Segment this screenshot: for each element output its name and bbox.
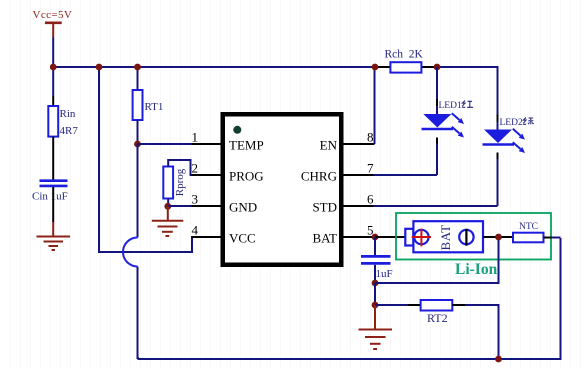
wire pin8 EN stub	[344, 143, 375, 145]
ground under Cin	[37, 237, 71, 251]
wire RT1 column from bus	[137, 67, 139, 90]
svg-text:1: 1	[192, 130, 199, 145]
wire Vcc bus	[52, 66, 375, 68]
node TEMP junction	[134, 141, 141, 148]
wire RT2 row left	[375, 304, 421, 306]
svg-text:GND: GND	[229, 200, 257, 215]
svg-text:7: 7	[367, 161, 374, 176]
wire TEMP column below hop to bottom rail	[138, 267, 140, 359]
svg-text:TEMP: TEMP	[229, 138, 264, 153]
ground at RT2 node	[359, 330, 393, 350]
node GND junction	[164, 203, 171, 210]
node cap bottom junction	[372, 280, 379, 287]
node bus at Rch right	[434, 64, 441, 71]
LED1 red	[422, 67, 474, 175]
svg-text:PROG: PROG	[229, 169, 264, 184]
wire RT2 node to ground	[374, 305, 376, 329]
svg-text:RT2: RT2	[427, 311, 448, 325]
wire GND node to ground	[167, 206, 169, 220]
wire pin7 CHRG stub	[344, 174, 374, 176]
svg-text:6: 6	[367, 192, 374, 207]
svg-text:Rch 2K: Rch 2K	[385, 49, 424, 61]
wire bus right segment to LED2 column	[437, 67, 498, 130]
wire pin2 PROG jog	[168, 160, 221, 175]
LED2 green	[483, 115, 534, 207]
node battery plus NTC junction	[495, 234, 502, 241]
resistor RT1	[133, 90, 164, 120]
IC U1 body	[223, 114, 342, 265]
IC pin1 indicator dot	[233, 126, 241, 134]
node bus at Vcc	[50, 64, 57, 71]
wire Rch right lead	[421, 66, 437, 68]
svg-text:Rprog: Rprog	[174, 168, 186, 196]
wire Vcc stem to bus	[52, 38, 54, 68]
node bus at Rch left	[372, 64, 379, 71]
wire STD to LED2	[374, 205, 498, 207]
svg-text:RT1: RT1	[145, 101, 164, 113]
node bus at VCC-pin column	[96, 64, 103, 71]
wire hop over VCC wire	[123, 238, 138, 267]
wire VCC-pin column from bus at node 2	[99, 67, 194, 252]
resistor NTC	[513, 222, 544, 242]
resistor Rprog	[163, 167, 186, 199]
wire TEMP column down to hop	[137, 144, 139, 238]
svg-text:8: 8	[367, 130, 374, 145]
wire pin1 TEMP	[138, 143, 222, 145]
svg-text:BAT: BAT	[312, 231, 337, 246]
wire BAT node to battery	[375, 236, 405, 238]
ground at pin3	[152, 221, 184, 236]
svg-text:4: 4	[192, 223, 199, 238]
wire battery to NTC node	[483, 236, 513, 238]
wire Rch left lead	[375, 66, 390, 68]
svg-text:NTC: NTC	[519, 222, 538, 232]
wire Rin column from bus	[52, 67, 54, 106]
wire pin6 STD stub	[344, 205, 374, 207]
svg-text:Li-Ion: Li-Ion	[455, 261, 498, 278]
wire Cin to ground	[52, 187, 54, 237]
svg-text:VCC: VCC	[229, 231, 256, 246]
wire pin5 BAT stub	[344, 236, 374, 238]
svg-text:4R7: 4R7	[60, 125, 79, 137]
wire pin4 VCC stub	[192, 236, 222, 238]
svg-text:EN: EN	[320, 138, 338, 153]
wire pin3 GND	[168, 205, 222, 207]
svg-text:LED1: LED1	[439, 101, 462, 111]
wire CHRG to LED1	[374, 174, 438, 176]
node BAT junction	[372, 234, 379, 241]
svg-text:STD: STD	[312, 200, 337, 215]
svg-text:2: 2	[192, 161, 199, 176]
wire Rin to Cin	[52, 137, 54, 180]
wire EN up to bus	[374, 67, 376, 144]
wire bottom rail	[138, 238, 561, 359]
svg-text:Cin 1uF: Cin 1uF	[32, 190, 68, 202]
power Vcc=5V	[33, 9, 73, 38]
battery BT1	[405, 221, 483, 252]
wire Rprog to GND node	[167, 199, 169, 207]
wire NTC to right column	[544, 237, 561, 239]
node bus at RT1 column	[134, 64, 141, 71]
capacitor Cin 1uF	[32, 181, 68, 203]
wire RT2 row right down to bottom rail	[452, 305, 498, 359]
wire cap bottom to battery minus	[375, 240, 499, 283]
wire RT1 to TEMP node	[137, 120, 139, 144]
battery Li-Ion enclosure	[396, 213, 551, 260]
resistor RT2	[421, 300, 453, 325]
resistor Rin 4R7	[48, 106, 78, 137]
svg-text:1uF: 1uF	[376, 268, 393, 280]
node RT2 junction	[372, 302, 379, 309]
svg-text:Rin: Rin	[60, 108, 76, 120]
svg-text:BAT: BAT	[438, 224, 453, 250]
svg-text:3: 3	[192, 192, 199, 207]
svg-text:Vcc=5V: Vcc=5V	[33, 9, 73, 21]
svg-text:CHRG: CHRG	[301, 169, 337, 184]
wire down to RT2 node	[374, 283, 376, 305]
capacitor C1 1uF at BAT	[361, 237, 393, 283]
resistor Rch 2K	[385, 49, 424, 73]
node bottom rail junction	[495, 356, 502, 363]
svg-text:LED2: LED2	[500, 118, 523, 128]
